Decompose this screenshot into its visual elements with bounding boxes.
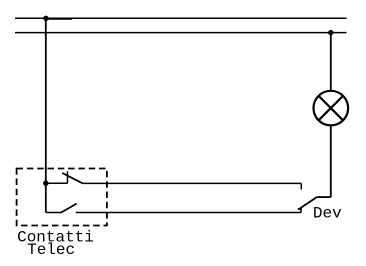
node: junction dot on rail L1 bbox=[43, 16, 48, 21]
dashed enclosure box Contatti Telec bbox=[17, 169, 107, 226]
wire: lower throw line from K2 to deviator bbox=[76, 212, 301, 214]
contact K2 blade (open) bbox=[61, 204, 76, 213]
node: junction dot on rail N bbox=[328, 30, 333, 35]
svg-text:Telec: Telec bbox=[27, 241, 75, 259]
contact K2 left stub wire bbox=[46, 212, 61, 214]
deviator Dev blade tip tick bbox=[298, 208, 302, 210]
deviator Dev blade bbox=[298, 197, 316, 209]
deviator lower throw tick bbox=[300, 208, 302, 212]
lamp L1 cross stroke 2 bbox=[319, 96, 343, 120]
wire: left vertical drop from rail L1 to contact box bbox=[45, 18, 47, 183]
wire: top supply rail L1 bbox=[15, 17, 347, 19]
deviator upper throw tick bbox=[300, 183, 302, 189]
contact K1 fixed-contact tick bbox=[67, 171, 69, 183]
contact K1 blade bbox=[62, 173, 83, 183]
svg-text:Dev: Dev bbox=[313, 205, 342, 223]
lamp L1 circle bbox=[314, 91, 349, 126]
wire: vertical drop from rail N to lamp bbox=[330, 33, 332, 90]
wire: stub overlap on rail L1 bbox=[46, 18, 72, 20]
wire: upper throw line from K1 to deviator bbox=[83, 182, 301, 184]
deviator Dev common horizontal bbox=[317, 196, 331, 198]
wire: lamp bottom to deviator common bbox=[330, 126, 332, 197]
contact K1 left stub wire bbox=[46, 182, 68, 184]
wire: second supply rail N bbox=[15, 32, 347, 34]
node: junction dot at contact K1 bbox=[43, 181, 48, 186]
wire: vertical between contacts K1 and K2 bbox=[45, 183, 47, 212]
lamp L1 cross stroke 1 bbox=[319, 96, 343, 120]
